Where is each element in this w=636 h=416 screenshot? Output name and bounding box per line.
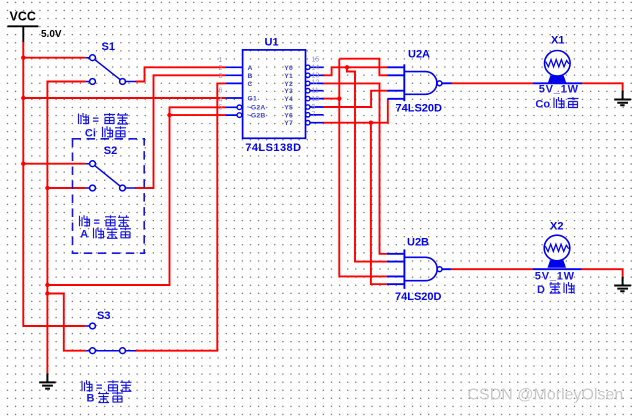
- svg-text:~G2A: ~G2A: [247, 105, 266, 112]
- wire U2A output to lamp X1: [452, 82, 533, 84]
- wire Y4 bridge to U2A input 2: [339, 59, 387, 76]
- label Co 借位 under X1: [535, 97, 578, 111]
- wire S2 common to pin B: [136, 75, 226, 188]
- wire Y4 vertical to U2B input 3: [339, 59, 386, 277]
- junction gnd-S3: [45, 291, 49, 295]
- wire Y1 to U2A input 1: [323, 67, 388, 75]
- decoder U1 74LS138D: [226, 50, 324, 138]
- svg-text:U1: U1: [265, 37, 279, 49]
- svg-text:10: 10: [312, 96, 320, 103]
- lamp X1: [533, 51, 583, 84]
- svg-text:=: =: [93, 114, 99, 126]
- wire VCC to G1 pin 6: [23, 97, 225, 99]
- label 键=空格 B 减数 for S3: [82, 380, 132, 404]
- svg-text:U2B: U2B: [407, 237, 429, 249]
- svg-text:1: 1: [219, 57, 223, 64]
- nand gate U2A 74LS20D: [388, 64, 452, 101]
- svg-text:5: 5: [219, 105, 223, 112]
- svg-text:Y6: Y6: [284, 112, 293, 119]
- svg-text:Ci: Ci: [85, 127, 96, 139]
- svg-text:U2A: U2A: [408, 49, 430, 61]
- label D 差值 under X2: [537, 282, 575, 296]
- svg-text:=: =: [94, 217, 100, 229]
- junction G2A-G2B: [167, 113, 171, 117]
- ground symbol right of X1: [614, 90, 631, 105]
- svg-text:Co: Co: [535, 99, 550, 111]
- svg-text:CSDN @MorleyOlsen: CSDN @MorleyOlsen: [468, 387, 624, 404]
- lamp X2: [533, 235, 582, 269]
- svg-text:13: 13: [312, 72, 320, 79]
- svg-text:11: 11: [312, 88, 319, 95]
- svg-text:X2: X2: [550, 221, 563, 233]
- svg-text:VCC: VCC: [10, 10, 36, 24]
- wire ground rail to S2 bottom throw: [47, 187, 85, 189]
- wire junction branch to G2B pin 5: [170, 114, 226, 116]
- junction Y1 branch: [345, 65, 349, 69]
- svg-text:7: 7: [312, 112, 316, 119]
- wire Y5 to U2A input 3: [324, 91, 388, 107]
- svg-text:B: B: [87, 393, 95, 405]
- svg-text:74LS138D: 74LS138D: [245, 142, 301, 154]
- svg-text:A: A: [248, 65, 253, 72]
- svg-text:5V_1W: 5V_1W: [535, 271, 575, 283]
- power VCC symbol: [8, 10, 62, 43]
- svg-text:B: B: [248, 73, 253, 80]
- svg-text:S3: S3: [97, 310, 110, 322]
- svg-text:5V_1W: 5V_1W: [539, 83, 579, 95]
- junction VCC-S2: [21, 162, 25, 166]
- wire lamp X1 to ground: [582, 83, 622, 90]
- svg-text:Y1: Y1: [284, 73, 293, 80]
- junction Y7 branch: [369, 121, 373, 125]
- wire Y4 stub link: [323, 98, 340, 100]
- svg-text:Y5: Y5: [284, 105, 293, 112]
- svg-text:Y4: Y4: [284, 96, 293, 103]
- wire Y7 to U2A input 4: [323, 99, 388, 123]
- svg-text:9: 9: [312, 104, 316, 111]
- svg-text:74LS20D: 74LS20D: [396, 103, 443, 115]
- svg-text:G1: G1: [248, 96, 258, 103]
- svg-text:2: 2: [219, 65, 223, 72]
- svg-text:Y7: Y7: [284, 120, 293, 127]
- nand gate U2B 74LS20D: [387, 249, 451, 289]
- wire ground rail to G2A G2B pins: [47, 107, 225, 285]
- switch S3: [86, 323, 136, 354]
- wire S3 common to pin C: [136, 83, 226, 350]
- svg-text:D: D: [537, 284, 545, 296]
- svg-text:S2: S2: [104, 145, 117, 157]
- svg-text:Y2: Y2: [284, 81, 293, 88]
- svg-text:14: 14: [312, 64, 320, 71]
- wire VCC to S2 top throw: [23, 163, 86, 165]
- label 键=空格 Ci 借位 for S1: [79, 113, 129, 139]
- switch S2: [86, 161, 136, 191]
- wire S1 common to pin A: [136, 67, 226, 81]
- ground symbol right of X2: [614, 277, 631, 292]
- svg-text:C: C: [248, 81, 253, 88]
- wire U2B output to lamp X2: [451, 268, 533, 270]
- svg-text:15: 15: [312, 56, 320, 63]
- wire VCC to S1 top throw: [23, 57, 86, 59]
- U1 inner pin names: [247, 65, 293, 127]
- junction gnd-G2: [45, 283, 49, 287]
- junction gnd-S2: [45, 186, 49, 190]
- selection dashed box around S2: [73, 139, 145, 253]
- wire lamp X2 to ground: [582, 269, 623, 277]
- svg-text:74LS20D: 74LS20D: [395, 291, 442, 303]
- junction Y4 branch: [337, 96, 341, 100]
- switch S1: [86, 55, 136, 85]
- svg-text:4: 4: [219, 97, 223, 104]
- svg-text:~G2B: ~G2B: [247, 113, 266, 120]
- ground symbol bottom left: [39, 373, 55, 388]
- junction VCC-G1: [21, 96, 25, 100]
- label 键=空格 A 被减数 for S2: [80, 215, 132, 240]
- svg-text:A: A: [80, 228, 88, 240]
- svg-text:Y3: Y3: [284, 88, 293, 95]
- svg-text:6: 6: [219, 88, 223, 95]
- wire ground rail from S1 bottom throw: [47, 82, 85, 374]
- U1 pin numbers right: [312, 56, 320, 118]
- U1 pin numbers left: [219, 57, 223, 112]
- wire Y1 branch to U2B input 2: [347, 67, 387, 261]
- wire Y2 to U2B input 1: [322, 83, 387, 253]
- junction VCC-S1: [21, 56, 25, 60]
- svg-text:12: 12: [312, 80, 320, 87]
- svg-text:3: 3: [219, 73, 223, 80]
- wire Y7 branch to U2B input 4: [371, 123, 387, 285]
- svg-text:S1: S1: [102, 41, 115, 53]
- svg-text:Y0: Y0: [284, 65, 293, 72]
- wire VCC rail to S3 top throw: [23, 42, 86, 326]
- svg-text:X1: X1: [551, 35, 564, 47]
- wire ground rail to S3 bottom throw: [47, 294, 85, 351]
- svg-text:5.0V: 5.0V: [41, 29, 62, 40]
